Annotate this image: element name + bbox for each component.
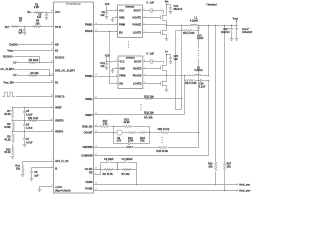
wire sense A to cap: [193, 30, 199, 32]
svg-text:C- 1uF: C- 1uF: [146, 52, 154, 55]
wire HGATE A: [143, 17, 161, 19]
wire VREF tap C: [13, 131, 54, 133]
capacitor C12: [106, 62, 108, 64]
svg-text:5.0R: 5.0R: [128, 140, 133, 143]
resistor R27 divider: [224, 26, 226, 163]
wire Fsw_EN: [16, 82, 54, 84]
dots ISEN continuation: [141, 104, 142, 110]
svg-text:C- 1uF: C- 1uF: [146, 1, 154, 4]
svg-text:AT8932C: AT8932C: [126, 57, 136, 60]
svg-text:P.S 10k: P.S 10k: [144, 117, 153, 120]
wire sense branch B: [184, 76, 186, 115]
wire CV1: [19, 62, 54, 64]
wire sense pair A down: [176, 31, 182, 110]
svg-text:0.22uH: 0.22uH: [190, 19, 198, 22]
svg-text:1uF: 1uF: [100, 14, 105, 17]
svg-text:12: 12: [95, 30, 97, 32]
svg-text:4.7nF: 4.7nF: [26, 127, 33, 130]
svg-text:HGATE: HGATE: [132, 17, 141, 20]
wire PHASE A: [143, 24, 167, 26]
wire ROCHG joins CV1: [15, 57, 40, 63]
wire Vout sense plus: [94, 184, 237, 186]
capacitor C5: [24, 108, 26, 112]
capacitor C20 input B: [169, 58, 172, 59]
wire CMPWM to bus corner: [168, 147, 199, 149]
inductor L1: [191, 24, 197, 27]
wire U3 GND pin: [113, 18, 118, 20]
svg-text:R25 10.0k: R25 10.0k: [156, 150, 168, 153]
resistor Rsv: [22, 162, 24, 166]
svg-text:R2 47.5k: R2 47.5k: [103, 173, 114, 176]
transistor Q1 high side: [160, 16, 162, 20]
wire Vout rail: [197, 25, 238, 27]
svg-text:100uFx3: 100uFx3: [242, 31, 253, 34]
resistor R17: [101, 125, 109, 127]
node Vout_sen- terminal: [237, 190, 239, 192]
svg-text:R16 10k: R16 10k: [144, 111, 154, 114]
svg-text:SYNC B: SYNC B: [55, 96, 65, 99]
svg-text:Vout_sen-: Vout_sen-: [239, 189, 251, 192]
wire U9 to R23: [123, 132, 129, 134]
wire VREF tap A: [13, 107, 54, 109]
svg-text:R6 10k: R6 10k: [30, 72, 39, 75]
wire HGATE B: [143, 68, 161, 70]
ground C8: [30, 179, 34, 182]
svg-text:PTN78A4C: PTN78A4C: [66, 2, 81, 6]
wire ADJ: [23, 161, 54, 163]
capacitor C9: [106, 11, 108, 13]
wire Vin A down: [166, 4, 168, 16]
svg-text:ADJ_I4_OC: ADJ_I4_OC: [55, 160, 69, 163]
ground Rsv: [21, 175, 25, 178]
capacitor C3 comp: [118, 163, 125, 170]
svg-text:1.5k: 1.5k: [103, 122, 108, 125]
wire ISEN4: [94, 114, 185, 116]
ground U3: [111, 20, 115, 23]
svg-text:23: 23: [95, 131, 97, 133]
wire PWM4: [94, 76, 119, 78]
wire droop to bus: [170, 132, 199, 134]
wire BOOT A: [143, 10, 150, 12]
svg-text:BRGE: BRGE: [85, 30, 93, 33]
svg-text:SUM_NC: SUM_NC: [82, 126, 93, 129]
ground CAO: [38, 190, 42, 193]
svg-text:0.22uH: 0.22uH: [194, 69, 202, 72]
wire FB: [94, 170, 101, 175]
capacitor C1: [24, 27, 26, 30]
wire sense branch A: [181, 26, 183, 110]
svg-text:VREFB: VREFB: [55, 120, 64, 123]
wire V10 to VCC: [107, 6, 118, 11]
resistor R16: [145, 113, 153, 115]
svg-text:42: 42: [51, 119, 53, 121]
svg-text:8.06k: 8.06k: [4, 126, 11, 129]
svg-text:4: 4: [116, 31, 117, 33]
svg-text:Fsw_EN: Fsw_EN: [4, 81, 14, 84]
svg-text:5: 5: [51, 160, 52, 162]
svg-text:2: 2: [51, 106, 52, 108]
svg-text:29: 29: [95, 113, 97, 115]
resistor R3: [33, 25, 41, 27]
svg-text:PS B: PS B: [55, 26, 61, 29]
svg-text:ISEN4: ISEN4: [85, 114, 93, 117]
svg-text:4: 4: [116, 82, 117, 84]
svg-text:10: 10: [95, 74, 97, 76]
wire sense B to cap: [195, 80, 201, 82]
svg-text:20.0k: 20.0k: [4, 113, 11, 116]
svg-text:10k: 10k: [16, 168, 21, 171]
svg-text:16.2k: 16.2k: [123, 121, 130, 124]
svg-text:38: 38: [51, 43, 53, 45]
resistor R23: [129, 132, 136, 134]
svg-text:* Needed: * Needed: [206, 4, 217, 7]
svg-text:21: 21: [95, 154, 97, 156]
svg-text:Vout_sen: Vout_sen: [239, 183, 251, 186]
wire SUM_NC top branch: [94, 126, 101, 128]
node Vout terminal: [236, 22, 238, 26]
resistor R8 ladder: [12, 121, 14, 123]
svg-text:1uF: 1uF: [37, 16, 42, 19]
svg-text:LGATE: LGATE: [133, 31, 142, 34]
svg-text:PWM1: PWM1: [85, 24, 93, 27]
svg-text:32: 32: [95, 97, 97, 99]
ground C7: [23, 145, 27, 148]
resistor R6: [29, 74, 37, 76]
resistor R22 droop: [161, 131, 169, 133]
svg-text:R11 5.1k: R11 5.1k: [28, 117, 39, 120]
resistor R25: [159, 146, 167, 148]
svg-text:BOOT: BOOT: [134, 61, 142, 64]
wire L2 out to rail riser: [201, 75, 209, 77]
svg-text:25: 25: [95, 125, 97, 127]
wire I8: [32, 167, 54, 169]
ground Q2 source: [165, 39, 169, 42]
svg-text:PWM: PWM: [119, 75, 125, 78]
gate driver U3 body: [118, 5, 143, 38]
svg-text:R13 1.87k: R13 1.87k: [183, 32, 195, 35]
wire node A to top branch: [113, 127, 115, 133]
resistor R22b comp: [123, 168, 131, 170]
ground C12: [105, 68, 109, 71]
resistor R7 ladder: [12, 108, 14, 111]
wire COMP: [94, 169, 137, 171]
svg-text:20: 20: [95, 146, 97, 148]
svg-text:0.1uF: 0.1uF: [199, 85, 206, 88]
wire CAO ground: [40, 187, 54, 190]
svg-text:COMSUM: COMSUM: [81, 154, 92, 157]
resistor R1: [12, 26, 19, 28]
svg-text:VDDN: VDDN: [85, 181, 92, 184]
svg-text:16: 16: [95, 183, 97, 185]
op-amp U9: [117, 130, 122, 135]
svg-text:10k: 10k: [35, 22, 40, 25]
capacitor C3: [46, 13, 48, 15]
wire R18 to node B: [133, 127, 150, 133]
resistor R14 sense B: [186, 79, 194, 81]
svg-text:C2 49pF: C2 49pF: [104, 158, 114, 161]
svg-text:VCC: VCC: [119, 61, 124, 64]
svg-text:FB: FB: [89, 172, 93, 175]
wire OC_ALERT joins CV2: [17, 70, 50, 76]
svg-text:1R: 1R: [19, 20, 22, 23]
wire ISEN1: [94, 98, 182, 100]
svg-text:R15 10k: R15 10k: [144, 95, 154, 98]
wire PHASE B: [143, 75, 167, 77]
svg-text:1uF: 1uF: [18, 32, 23, 35]
wire CV2: [19, 75, 54, 77]
svg-text:Vin: Vin: [165, 1, 169, 4]
node C1 junction: [24, 26, 25, 27]
svg-text:OC_ALERT: OC_ALERT: [0, 68, 14, 71]
svg-text:4.7uF: 4.7uF: [26, 141, 33, 144]
svg-text:IN: IN: [28, 11, 31, 14]
wire V10 B to VCC: [107, 57, 119, 62]
resistor R15: [145, 97, 153, 99]
capacitor C11 boot A: [150, 9, 153, 12]
wire CMPWM: [94, 147, 159, 149]
svg-text:10uFx3: 10uFx3: [221, 31, 230, 34]
ground C1: [23, 33, 27, 36]
svg-text:2: 2: [51, 25, 52, 27]
svg-text:10k: 10k: [208, 165, 213, 168]
svg-text:VCC: VCC: [119, 10, 124, 13]
svg-text:13: 13: [95, 23, 97, 25]
wire COUNT: [94, 132, 117, 134]
wire LGATE A: [143, 32, 161, 34]
svg-text:1uF: 1uF: [174, 58, 179, 61]
svg-text:V10: V10: [105, 54, 110, 57]
svg-text:30.1k: 30.1k: [4, 151, 11, 154]
svg-text:COUNT: COUNT: [84, 132, 93, 135]
wire R17 to R18: [110, 126, 124, 128]
transistor Q3 high side: [160, 66, 162, 70]
capacitor C22 output: [231, 26, 233, 29]
svg-text:CMPWM: CMPWM: [83, 146, 93, 149]
svg-text:51k: 51k: [140, 140, 145, 143]
svg-text:ROCHG: ROCHG: [3, 55, 12, 58]
wire phase node A: [167, 25, 191, 27]
resistor R5: [29, 61, 37, 63]
gate driver U4 body: [118, 56, 143, 89]
capacitor C11 branch: [114, 133, 129, 144]
capacitor C13 boot B: [150, 60, 153, 63]
capacitor C10 input A: [169, 8, 172, 9]
ground C9: [105, 17, 109, 20]
wire Vreg: [15, 50, 54, 52]
node A junction: [113, 132, 114, 133]
resistor R26 divider: [215, 26, 217, 163]
svg-text:10: 10: [51, 61, 53, 63]
svg-text:VCC: VCC: [55, 11, 60, 14]
wire BRGE enable bus: [94, 31, 118, 33]
capacitor C6: [24, 121, 26, 125]
svg-text:EnGN1: EnGN1: [9, 43, 18, 46]
svg-text:V10: V10: [105, 3, 110, 6]
dots continuation phases: [128, 42, 129, 48]
svg-text:EN: EN: [119, 82, 123, 85]
wire PWM1: [94, 24, 118, 26]
wire IN to VCC pin: [33, 12, 54, 14]
wire enable bus down to driver B: [110, 32, 119, 84]
dots droop continuation: [162, 137, 163, 143]
svg-text:LGATE: LGATE: [133, 82, 142, 85]
capacitor C7: [24, 132, 26, 139]
svg-text:PWM4: PWM4: [85, 75, 93, 78]
wire U4 GND pin: [113, 69, 119, 71]
svg-text:CV: CV: [13, 74, 17, 77]
svg-text:40.2k: 40.2k: [4, 138, 11, 141]
svg-text:1uF: 1uF: [34, 174, 39, 177]
svg-text:PWM: PWM: [119, 24, 125, 27]
wire node B to droop resistor: [147, 132, 161, 134]
ground C3: [45, 18, 49, 21]
clock waveform symbol: [3, 92, 16, 96]
svg-text:68uFx3: 68uFx3: [174, 8, 183, 11]
wire SYNC: [17, 96, 19, 98]
resistor R18: [124, 125, 132, 127]
wire R23 to R24: [136, 132, 140, 134]
svg-text:1uF: 1uF: [100, 65, 105, 68]
wire Vout sense minus: [94, 190, 237, 192]
svg-text:31: 31: [51, 74, 53, 76]
resistor R9 ladder: [12, 132, 14, 135]
svg-text:(Rpu=0.5mA): (Rpu=0.5mA): [55, 189, 71, 192]
svg-text:3: 3: [95, 173, 96, 175]
wire EnGN1: [20, 44, 54, 46]
svg-text:6: 6: [51, 185, 52, 187]
wire phase node B: [167, 75, 195, 77]
svg-text:3: 3: [116, 23, 117, 25]
svg-text:GND: GND: [119, 17, 125, 20]
svg-text:ISEN1: ISEN1: [85, 98, 93, 101]
svg-text:9: 9: [51, 49, 52, 51]
svg-text:2.2R: 2.2R: [34, 6, 39, 9]
svg-text:V+: V+: [165, 51, 169, 54]
capacitor C8: [31, 168, 33, 172]
svg-text:VREFA: VREFA: [55, 130, 64, 133]
svg-text:33: 33: [51, 95, 53, 97]
svg-text:KB: KB: [55, 44, 59, 47]
svg-text:34: 34: [51, 81, 53, 83]
svg-text:35: 35: [95, 168, 97, 170]
ground C20: [169, 62, 173, 65]
svg-text:R14 1.87k: R14 1.87k: [185, 82, 197, 85]
svg-text:EN: EN: [119, 31, 123, 34]
wire sense bus phase1 down: [198, 31, 200, 49]
capacitor C16 sense B: [201, 79, 202, 82]
resistor R13 sense A: [184, 29, 192, 31]
main IC U1 body: [54, 2, 94, 193]
capacitor C23 output: [236, 26, 238, 29]
ground ladder bottom: [11, 157, 15, 160]
capacitor C15 sense A: [198, 30, 200, 31]
ground U4: [111, 71, 115, 74]
wire VREF tap B: [13, 120, 54, 122]
svg-text:3: 3: [116, 74, 117, 76]
wire Vin A to input cap: [167, 5, 171, 8]
svg-text:44: 44: [51, 10, 53, 12]
svg-text:SVB_OC_ALERT: SVB_OC_ALERT: [55, 69, 75, 72]
svg-text:0.1uF: 0.1uF: [26, 114, 33, 117]
svg-text:PHASE: PHASE: [132, 24, 141, 27]
wire Vin B down: [166, 54, 168, 66]
svg-text:R22 10.0k: R22 10.0k: [158, 128, 170, 131]
wire COMSUM: [94, 155, 209, 157]
svg-text:4: 4: [51, 166, 52, 168]
transistor Q2 low side: [160, 31, 162, 35]
inductor L2: [195, 74, 201, 77]
svg-text:C3 100pF: C3 100pF: [122, 158, 134, 161]
svg-text:R5 100k: R5 100k: [29, 59, 39, 62]
svg-text:LT6: LT6: [117, 140, 122, 143]
svg-text:PHASE: PHASE: [133, 75, 142, 78]
svg-text:41: 41: [51, 130, 53, 132]
svg-text:BOOT: BOOT: [134, 10, 142, 13]
svg-text:Vreg: Vreg: [7, 49, 13, 52]
node VCC junction: [46, 12, 47, 13]
wire phase4 comp return down: [208, 81, 210, 156]
svg-text:CV: CV: [13, 61, 17, 64]
wire comp to sense plus: [136, 170, 138, 185]
transistor Q4 low side: [160, 82, 162, 86]
ground C10: [169, 12, 173, 15]
node Vout_sen+ terminal: [237, 184, 239, 186]
svg-text:R4 10k: R4 10k: [122, 173, 131, 176]
wire BOOT B: [143, 61, 150, 63]
capacitor C2 comp: [101, 163, 107, 170]
ground Q4 source: [165, 90, 169, 93]
svg-text:15: 15: [95, 189, 97, 191]
svg-text:2.2uF: 2.2uF: [197, 37, 204, 40]
svg-text:GND: GND: [119, 68, 125, 71]
wire Vin to FB pin: [11, 26, 54, 28]
svg-text:ROCHG: ROCHG: [55, 57, 64, 60]
svg-text:Vin: Vin: [5, 26, 9, 29]
svg-text:VREF: VREF: [55, 107, 62, 110]
dots sense bus continuation: [198, 50, 199, 56]
wire riser phase B to rail: [208, 26, 210, 76]
wire sense bus lower segment: [198, 59, 200, 148]
svg-text:HGATE: HGATE: [133, 68, 142, 71]
svg-text:AT8932C: AT8932C: [125, 6, 135, 9]
svg-text:10k: 10k: [227, 165, 232, 168]
resistor R11: [29, 119, 37, 121]
resistor R10 ladder: [12, 147, 14, 155]
wire Vin B to input cap: [167, 55, 171, 58]
resistor R2: [35, 11, 43, 13]
resistor R21 comp: [105, 168, 113, 170]
svg-text:PGND: PGND: [85, 187, 92, 190]
resistor R24: [140, 132, 147, 134]
svg-text:Vout: Vout: [233, 17, 239, 20]
wire LGATE B: [143, 83, 161, 85]
